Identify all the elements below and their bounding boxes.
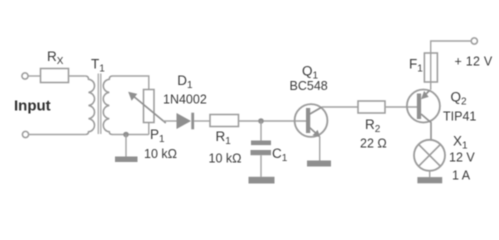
transistor Q2 base bar xyxy=(417,94,421,120)
potentiometer P1 body xyxy=(144,90,155,123)
lamp X1 body xyxy=(414,140,445,171)
transistor Q1 collector xyxy=(309,107,322,115)
node junction T1 ground xyxy=(123,132,129,138)
wire P1 bottom lead xyxy=(148,123,150,135)
resistor RX xyxy=(41,69,69,83)
wire junction to C1 xyxy=(260,121,262,141)
transformer T1 core xyxy=(97,74,99,135)
capacitor C1 plate top xyxy=(251,141,271,146)
transistor Q2 collector lead with arrow xyxy=(423,91,430,98)
potentiometer P1 wiper arrow xyxy=(134,96,166,123)
input terminal bottom xyxy=(22,131,28,137)
wire Q1 collector to R2 xyxy=(322,106,358,108)
svg-text:12 V: 12 V xyxy=(449,151,475,165)
transformer T1 primary winding xyxy=(85,76,94,135)
ground under C1 xyxy=(249,177,275,184)
svg-text:10 kΩ: 10 kΩ xyxy=(209,152,242,166)
transformer T1 secondary winding xyxy=(103,76,112,135)
transistor Q1 emitter with arrow xyxy=(309,127,318,135)
terminal +12V xyxy=(471,38,477,44)
diode D1 xyxy=(177,113,192,129)
wire P1 wiper to D1 xyxy=(163,120,177,122)
transistor Q1 base bar xyxy=(306,108,310,133)
wire Q1 emitter to ground xyxy=(319,137,321,161)
wire R1 to Q1 base xyxy=(239,120,307,122)
node junction C1 xyxy=(258,118,264,124)
input terminal top xyxy=(22,73,28,79)
ground under Q1 xyxy=(307,161,331,167)
svg-text:Input: Input xyxy=(14,98,51,115)
svg-text:1N4002: 1N4002 xyxy=(163,93,207,107)
svg-text:1 A: 1 A xyxy=(452,169,471,183)
wire input top to RX xyxy=(28,75,40,77)
wire R2 to Q2 base xyxy=(385,106,418,108)
wire RX to T1 primary xyxy=(69,75,86,77)
svg-text:BC548: BC548 xyxy=(290,79,328,93)
wire junction to ground xyxy=(125,135,127,157)
transistor Q2 emitter lead xyxy=(421,114,431,140)
resistor R2 xyxy=(358,101,385,113)
wire terminal to F1 xyxy=(431,41,472,53)
wire D1 to R1 xyxy=(194,120,210,122)
svg-text:+ 12 V: + 12 V xyxy=(455,55,493,69)
capacitor C1 plate bottom xyxy=(251,150,272,155)
wire T1 secondary top to P1 xyxy=(113,76,149,90)
transistor Q2 body xyxy=(407,90,440,123)
wire C1 to ground xyxy=(260,155,262,177)
wire lamp to ground xyxy=(429,171,431,177)
wire T1 secondary bottom to P1 xyxy=(113,134,149,136)
svg-text:10 kΩ: 10 kΩ xyxy=(144,147,177,161)
wire input bottom to T1 primary xyxy=(29,134,86,136)
svg-text:22 Ω: 22 Ω xyxy=(360,137,387,151)
ground under X1 xyxy=(417,177,442,183)
fuse F1 xyxy=(430,53,432,90)
ground under T1 xyxy=(115,157,138,163)
svg-text:TIP41: TIP41 xyxy=(443,109,476,123)
resistor R1 xyxy=(210,115,239,127)
transistor Q1 body xyxy=(295,104,328,137)
lamp X1 cross xyxy=(419,144,441,166)
